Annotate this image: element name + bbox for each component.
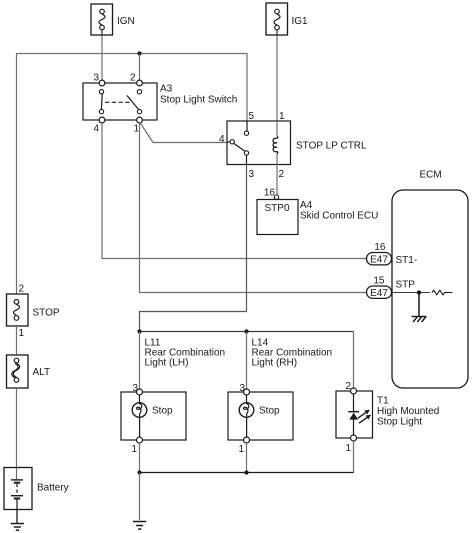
relay switch contacts [227,121,249,165]
lamp L11 body [121,392,186,440]
junction node at top bus above switch terminal 2 [137,51,141,55]
svg-text:ECM: ECM [420,170,442,181]
relay pin 5 label [249,111,255,122]
battery [4,468,32,510]
svg-text:1: 1 [345,443,351,454]
label 16 [374,242,386,253]
label ST1- [396,255,418,266]
svg-text:STOP: STOP [33,308,60,319]
fuse IG1 [266,3,288,35]
svg-text:Stop: Stop [259,406,280,417]
wire switch A3 terminal 4 down and right to ECM pin ST1- [102,123,367,259]
wire L11 terminal 1 down to ground bus [139,443,141,473]
svg-text:STP: STP [396,280,416,291]
label STOP fuse pin 2 [19,284,25,295]
svg-text:5: 5 [249,111,255,122]
wire switch A3 terminal 1 down and right to ECM pin STP [140,123,368,293]
wire ground bus down to ground [139,473,141,521]
wire bus down to L14 terminal 3 [246,332,248,390]
LED lamp T1 body [336,391,373,438]
ground bus under lamps [140,472,354,474]
label L14 Rear Combination Light (RH) [252,338,333,369]
junction node ground bus at L14 [244,470,248,474]
lamp L11 bulb [132,395,147,437]
svg-text:1: 1 [279,111,285,122]
svg-text:3: 3 [132,383,138,394]
junction node inside ECM [417,290,421,294]
wire bus down to T1 terminal 2 [353,332,355,389]
svg-text:15: 15 [373,276,385,287]
label A4 Skid Control ECU [300,200,378,221]
label T1 High Mounted Stop Light [377,396,439,428]
svg-text:Skid Control ECU: Skid Control ECU [300,210,378,221]
label ECM [420,170,442,181]
svg-text:3: 3 [93,73,99,84]
wire junction down to ECM internal ground [418,293,420,317]
ECM internal ground [412,317,427,323]
LED T1 terminal 2 [345,381,356,394]
svg-text:2: 2 [130,73,136,84]
junction node lamp bus at L14 [244,329,248,333]
switch A3 body [83,83,157,120]
wire from battery feed: left riser and top bus to relay terminal 5 [17,54,248,295]
switch A3 terminal 2 [130,73,142,86]
ECM box [392,190,468,388]
lamp L14 terminal 1 [238,437,249,455]
fuse STOP [7,294,29,326]
svg-text:4: 4 [93,124,99,135]
svg-text:Light (LH): Light (LH) [145,358,189,369]
svg-text:2: 2 [19,284,25,295]
relay coil [273,121,278,165]
label STP [396,280,416,291]
relay STOP LP CTRL body [227,121,291,165]
svg-text:T1: T1 [377,396,389,407]
lamp L14 body [228,392,293,440]
svg-text:E47: E47 [370,288,388,299]
label Stop L14 [259,406,280,417]
switch A3 terminal 1 [133,117,142,134]
junction node ground bus at L11 [137,470,141,474]
svg-text:Stop: Stop [152,406,173,417]
svg-text:Battery: Battery [37,483,69,494]
svg-text:High Mounted: High Mounted [377,406,439,417]
svg-text:4: 4 [219,134,225,145]
svg-text:2: 2 [279,169,285,180]
label STOP LP CTRL [296,141,367,152]
label IGN [117,16,135,27]
svg-text:1: 1 [131,444,137,455]
svg-text:1: 1 [238,444,244,455]
relay pin 2 label [279,169,285,180]
label IG1 [292,16,309,27]
fusible link ALT [7,355,29,388]
svg-text:16: 16 [374,242,386,253]
label A3 Stop Light Switch [160,84,237,106]
wire top bus junction down to switch A3 terminal 2 [139,54,141,81]
svg-text:3: 3 [249,169,255,180]
svg-text:IGN: IGN [117,16,135,27]
lamp L11 terminal 3 [132,383,142,395]
switch A3 terminal 3 [93,73,104,86]
svg-text:A3: A3 [160,84,173,95]
wire relay terminal 3 down, jog left, down to lamp bus [140,165,247,332]
svg-text:ALT: ALT [33,367,51,378]
relay pin 4 label [219,134,225,145]
wire STOP fuse to ALT fuse [16,326,18,355]
pin 15 connector E47 STP [367,286,392,299]
label STOP fuse pin 1 [19,328,25,339]
resistor inside ECM [432,290,453,295]
svg-text:STP0: STP0 [265,203,290,214]
label L11 Rear Combination Light (LH) [145,338,226,369]
lamp L11 terminal 1 [131,437,142,455]
fuse IGN [91,4,113,35]
relay pin 1 label [279,111,285,122]
wire bus down to L11 terminal 3 [139,332,141,390]
label STOP [33,308,60,319]
ground under lamps [133,522,146,530]
wire L14 terminal 1 down to ground bus [246,443,248,473]
label Stop L11 [152,406,173,417]
wire IGN fuse down to switch A3 terminal 3 [101,35,103,80]
svg-text:STOP LP CTRL: STOP LP CTRL [296,141,367,152]
svg-text:1: 1 [19,328,25,339]
label 15 [373,276,385,287]
svg-text:3: 3 [239,383,245,394]
connector STP0 skid control ECU box [257,200,298,235]
lamp feed bus [140,331,354,333]
svg-text:ST1-: ST1- [396,255,418,266]
wire IG1 fuse down to relay terminal 1 [276,35,278,121]
wire ALT fuse to battery [16,388,18,480]
svg-text:Light (RH): Light (RH) [252,358,298,369]
connector pin 16 of skid control ECU [264,188,279,200]
pin 16 connector E47 ST1- [367,253,392,266]
wire T1 terminal 1 down to ground bus [353,441,355,473]
svg-text:2: 2 [345,381,351,392]
switch A3 inner contacts and blades [99,90,141,114]
label Battery [37,483,69,494]
lamp L14 terminal 3 [239,383,249,395]
relay pin 3 label [249,169,255,180]
svg-text:Stop Light: Stop Light [377,417,422,428]
svg-text:1: 1 [133,124,139,135]
svg-text:IG1: IG1 [292,16,309,27]
junction node lamp bus left [137,329,141,333]
switch A3 terminal 4 [93,117,104,134]
wire relay coil terminal 2 down to skid control ECU pin 16 [276,165,278,195]
wire switch A3 terminal 1 diagonal to relay terminal 4 [140,123,227,143]
LED diode symbol [348,394,371,435]
wire battery to ground [16,510,18,524]
LED T1 terminal 1 [345,435,356,454]
lamp L14 bulb [239,395,254,437]
wire inside ECM from STP pin to pull-up [391,292,430,294]
svg-text:Stop Light Switch: Stop Light Switch [160,95,237,106]
svg-text:E47: E47 [370,255,388,266]
svg-text:16: 16 [264,188,276,199]
ground under battery [11,524,24,531]
label ALT [33,367,51,378]
